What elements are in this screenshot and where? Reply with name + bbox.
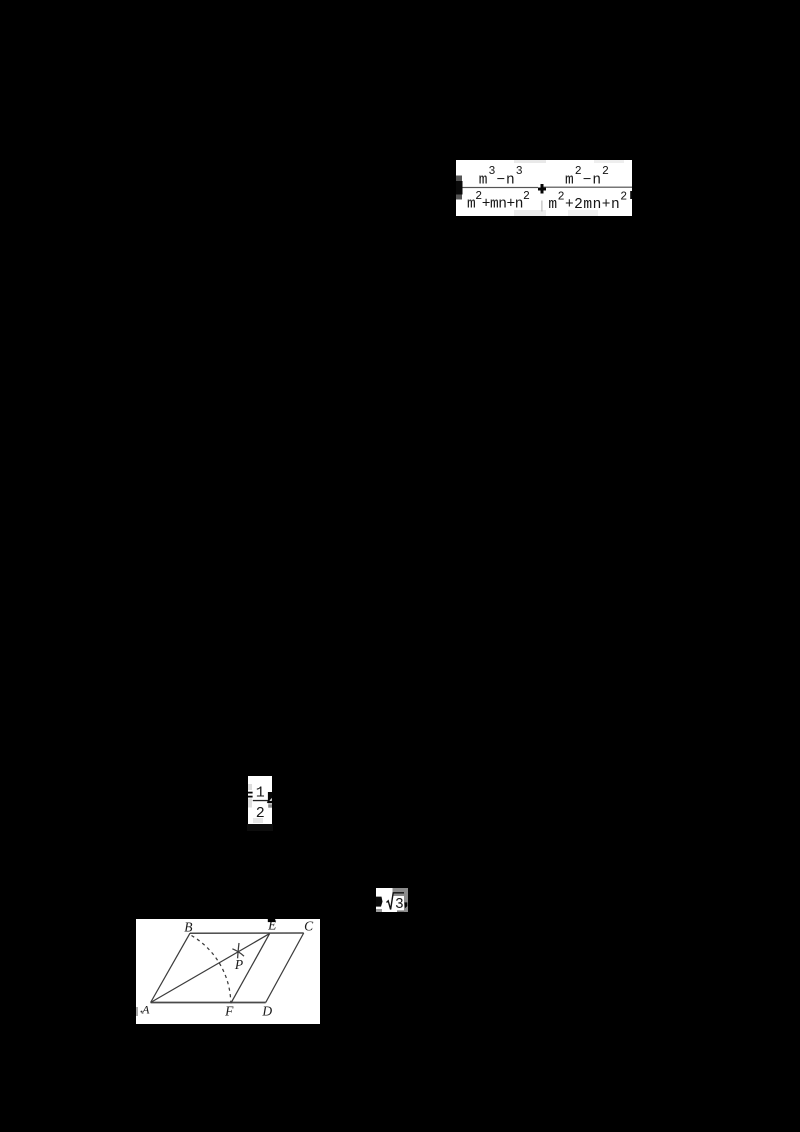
svg-text:m3−n3: m3−n3 (479, 165, 524, 188)
svg-text:P: P (234, 957, 243, 972)
svg-text:m2−n2: m2−n2 (565, 165, 610, 188)
svg-text:3: 3 (395, 897, 404, 912)
svg-text:B: B (184, 920, 192, 935)
svg-text:m2+2mn+n2: m2+2mn+n2 (548, 190, 627, 213)
svg-text:A: A (141, 1003, 150, 1017)
svg-text:2: 2 (256, 805, 265, 822)
svg-text:F: F (224, 1003, 234, 1018)
svg-text:D: D (261, 1003, 272, 1018)
svg-text:m2+mn+n2: m2+mn+n2 (467, 190, 530, 213)
svg-text:C: C (304, 919, 314, 933)
svg-text:1: 1 (256, 785, 265, 802)
